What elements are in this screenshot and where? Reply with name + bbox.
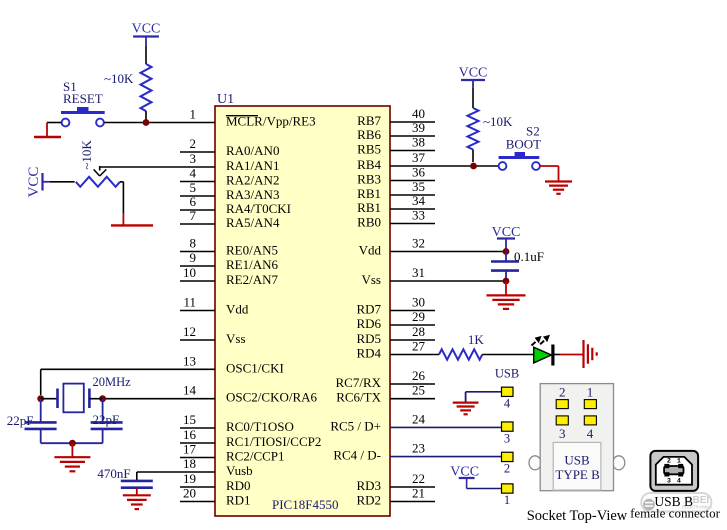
svg-text:25: 25 (412, 383, 425, 398)
resistor R1 ~10K (104, 46, 152, 123)
svg-text:3: 3 (504, 431, 510, 445)
svg-text:RA0/AN0: RA0/AN0 (226, 143, 279, 158)
pin 36 RB3 wire (357, 165, 435, 187)
junction node crystal ground (69, 440, 76, 447)
socket USB TYPE B inner outline (553, 442, 601, 490)
pushbutton S1 RESET (61, 79, 105, 126)
wire pad4 to ground (466, 391, 502, 393)
svg-text:22: 22 (412, 471, 425, 486)
svg-text:RA5/AN4: RA5/AN4 (226, 215, 280, 230)
svg-text:12: 12 (183, 324, 196, 339)
svg-text:1: 1 (504, 493, 510, 507)
svg-text:33: 33 (412, 208, 425, 223)
caption female connector (630, 506, 721, 521)
pin 23 RC4 / D- wire (333, 441, 501, 463)
pin 12 Vss wire (180, 324, 246, 346)
svg-text:8: 8 (190, 236, 197, 251)
svg-text:32: 32 (412, 236, 425, 251)
svg-text:~10K: ~10K (483, 114, 513, 129)
svg-text:RD4: RD4 (356, 346, 381, 361)
pin 7 RA5/AN4 wire (180, 208, 280, 230)
resistor R2 ~10K (468, 88, 514, 162)
svg-text:VCC: VCC (459, 66, 488, 81)
svg-text:BOOT: BOOT (506, 137, 541, 152)
svg-text:10: 10 (183, 265, 196, 280)
svg-text:18: 18 (183, 456, 196, 471)
svg-text:22pF: 22pF (93, 412, 120, 427)
pin 28 RD5 wire (356, 324, 435, 346)
pin 34 RB1 wire (357, 193, 435, 215)
power VCC (pad 1) (450, 465, 501, 489)
pin 29 RD6 wire (356, 309, 435, 331)
pin 21 RD2 wire (356, 486, 435, 508)
svg-text:RA4/T0CKI: RA4/T0CKI (226, 201, 291, 216)
pin 30 RD7 wire (356, 295, 435, 317)
wire R3 to LED (482, 354, 533, 356)
pin 5 RA3/AN3 wire (180, 180, 279, 202)
svg-text:RE0/AN5: RE0/AN5 (226, 243, 278, 258)
svg-text:VCC: VCC (26, 167, 42, 198)
svg-text:2: 2 (190, 136, 197, 151)
ground (potentiometer, simple bar) (111, 214, 153, 226)
capacitor C4 0.1uF (491, 249, 544, 281)
svg-text:RB3: RB3 (357, 172, 381, 187)
svg-text:RA2/AN2: RA2/AN2 (226, 173, 279, 188)
svg-text:3: 3 (190, 151, 197, 166)
svg-text:Vdd: Vdd (359, 243, 382, 258)
pin 4 RA2/AN2 wire (180, 166, 279, 188)
socket pin 4 pad (584, 416, 596, 441)
wire pin13 down to crystal (40, 369, 42, 395)
svg-text:RC1/TIOSI/CCP2: RC1/TIOSI/CCP2 (226, 434, 321, 449)
svg-text:39: 39 (412, 120, 425, 135)
svg-text:RB4: RB4 (357, 157, 381, 172)
pin 18 Vusb wire (137, 456, 253, 478)
pin 24 RC5 / D+ wire (330, 411, 501, 433)
LED D1 (532, 335, 553, 366)
pin 3 RA1/AN1 wire (100, 151, 279, 173)
svg-text:USB: USB (495, 367, 519, 381)
USB pad 3 (502, 422, 514, 445)
svg-text:OSC1/CKI: OSC1/CKI (226, 360, 284, 375)
svg-text:Socket Top-View: Socket Top-View (527, 508, 628, 524)
power VCC (potentiometer, rotated) (26, 167, 50, 198)
power VCC (reset pull-up) (132, 22, 161, 47)
pin 39 RB6 wire (357, 120, 435, 142)
svg-text:Vss: Vss (361, 272, 381, 287)
svg-text:17: 17 (183, 442, 197, 457)
svg-text:30: 30 (412, 295, 425, 310)
svg-text:VCC: VCC (132, 22, 161, 37)
USB pad 4 (502, 387, 514, 410)
svg-text:RD7: RD7 (356, 302, 381, 317)
svg-text:29: 29 (412, 309, 425, 324)
pin 17 RC2/CCP1 wire (180, 442, 285, 464)
pin 6 RA4/T0CKI wire (180, 194, 291, 216)
svg-text:31: 31 (412, 265, 425, 280)
junction node Vss (503, 278, 510, 285)
svg-text:RB1: RB1 (357, 186, 381, 201)
svg-text:6: 6 (190, 194, 197, 209)
ground (C4) (487, 281, 526, 309)
pin 38 RB5 wire (357, 135, 435, 157)
svg-text:3: 3 (559, 426, 566, 441)
svg-text:1: 1 (190, 107, 197, 122)
pin 2 RA0/AN0 wire (180, 136, 279, 158)
svg-text:19: 19 (183, 471, 196, 486)
USB B connector pins (664, 458, 683, 486)
pin 31 Vss wire (361, 265, 506, 287)
svg-text:RB1: RB1 (357, 200, 381, 215)
wire S1 left terminal (47, 122, 61, 124)
pin 40 RB7 wire (357, 106, 435, 128)
svg-text:0.1uF: 0.1uF (514, 249, 544, 264)
svg-text:U1: U1 (217, 92, 234, 107)
svg-text:34: 34 (412, 193, 426, 208)
pin 37 RB4 wire (357, 150, 498, 172)
pin 27 RD4 wire (356, 339, 439, 361)
caption Socket Top-View (527, 508, 628, 524)
wire capacitors common (41, 442, 103, 444)
pin 16 RC1/TIOSI/CCP2 wire (180, 427, 321, 449)
svg-text:~10K: ~10K (79, 140, 94, 170)
svg-text:RC0/T1OSO: RC0/T1OSO (226, 419, 294, 434)
svg-text:470nF: 470nF (97, 466, 130, 481)
svg-text:RC2/CCP1: RC2/CCP1 (226, 449, 285, 464)
potentiometer wiper arrow to pin 3 (94, 166, 107, 176)
socket pin 3 pad (556, 416, 568, 441)
junction node OSC2 (99, 395, 106, 402)
svg-text:7: 7 (190, 208, 197, 223)
svg-text:11: 11 (183, 295, 196, 310)
pin 13 OSC1/CKI wire (41, 353, 284, 375)
svg-text:RE1/AN6: RE1/AN6 (226, 257, 279, 272)
svg-text:21: 21 (412, 486, 425, 501)
caption USB B (654, 494, 693, 509)
svg-text:13: 13 (183, 353, 196, 368)
pin 22 RD3 wire (356, 471, 435, 493)
ground (C3) (123, 488, 151, 509)
pin 8 RE0/AN5 wire (180, 236, 278, 258)
resistor R3 1K (439, 332, 484, 360)
pin 19 RD0 wire (180, 471, 251, 493)
junction node OSC1 (37, 395, 44, 402)
svg-text:4: 4 (677, 477, 681, 485)
svg-text:OSC2/CKO/RA6: OSC2/CKO/RA6 (226, 390, 318, 405)
ground (crystal) (54, 443, 90, 471)
pin 15 RC0/T1OSO wire (180, 412, 294, 434)
net label USB (495, 367, 519, 381)
svg-text:RA3/AN3: RA3/AN3 (226, 187, 279, 202)
pin 25 RC6/TX wire (336, 383, 435, 405)
socket pin 1 pad (584, 385, 596, 409)
power VCC (decoupling) (492, 225, 521, 252)
svg-text:1K: 1K (468, 332, 485, 347)
svg-text:15: 15 (183, 412, 196, 427)
pin 26 RC7/RX wire (335, 368, 435, 390)
svg-text:RE2/AN7: RE2/AN7 (226, 272, 279, 287)
wire potentiometer right lead (120, 182, 123, 214)
pin 11 Vdd wire (180, 295, 249, 317)
svg-text:4: 4 (587, 426, 594, 441)
pin 33 RB0 wire (357, 208, 435, 230)
svg-text:RB0: RB0 (357, 215, 381, 230)
watermark badge (641, 493, 712, 512)
socket mounting ears (529, 456, 625, 470)
svg-text:PIC18F4550: PIC18F4550 (272, 497, 338, 512)
svg-text:9: 9 (190, 250, 197, 265)
svg-text:RB5: RB5 (357, 142, 381, 157)
pin 35 RB1 wire (357, 179, 435, 201)
svg-text:40: 40 (412, 106, 425, 121)
svg-text:2: 2 (504, 462, 510, 476)
capacitor C1 22pF (7, 399, 57, 444)
pin 10 RE2/AN7 wire (180, 265, 279, 287)
svg-text:5: 5 (190, 180, 197, 195)
svg-text:female connector: female connector (630, 506, 721, 521)
pin 20 RD1 wire (180, 486, 251, 508)
capacitor C3 470nF (97, 466, 152, 488)
junction node Vdd (503, 248, 510, 255)
svg-text:16: 16 (183, 427, 197, 442)
wire S2 right terminal (540, 165, 559, 167)
socket pin 2 pad (556, 385, 568, 409)
svg-text:35: 35 (412, 179, 425, 194)
svg-text:24: 24 (412, 411, 426, 426)
svg-text:Vdd: Vdd (226, 302, 249, 317)
pushbutton S2 BOOT (499, 124, 542, 170)
svg-text:RC7/RX: RC7/RX (335, 375, 381, 390)
svg-text:RD2: RD2 (356, 493, 381, 508)
svg-text:20MHz: 20MHz (93, 375, 132, 389)
svg-text:RD3: RD3 (356, 478, 381, 493)
svg-text:28: 28 (412, 324, 425, 339)
svg-text:4: 4 (504, 397, 511, 411)
ground (S1, simple bar) (34, 123, 61, 138)
svg-text:38: 38 (412, 135, 425, 150)
socket top-view body (540, 384, 613, 491)
USB B female connector icon (650, 451, 698, 491)
svg-text:RD6: RD6 (356, 316, 381, 331)
svg-text:RC4 / D-: RC4 / D- (333, 448, 381, 463)
capacitor C2 22pF (91, 399, 123, 444)
USB pad 2 (502, 452, 514, 475)
svg-text:USB: USB (564, 452, 590, 467)
pin 14 OSC2/CKO/RA6 wire (103, 383, 318, 405)
svg-text:~10K: ~10K (104, 71, 134, 86)
ground (pad 4) (453, 392, 479, 415)
svg-text:1: 1 (587, 385, 594, 400)
potentiometer RV1 ~10K (50, 140, 120, 187)
svg-text:Vusb: Vusb (226, 463, 253, 478)
svg-text:26: 26 (412, 368, 426, 383)
svg-text:RC6/TX: RC6/TX (336, 390, 381, 405)
svg-text:RB6: RB6 (357, 127, 381, 142)
crystal X1 20MHz (41, 375, 131, 412)
svg-text:RESET: RESET (63, 91, 103, 106)
svg-text:RD1: RD1 (226, 493, 251, 508)
svg-text:22pF: 22pF (7, 413, 34, 428)
wire LED cathode (554, 354, 583, 356)
USB pad 1 (502, 484, 514, 507)
svg-text:27: 27 (412, 339, 426, 354)
svg-text:RA1/AN1: RA1/AN1 (226, 158, 279, 173)
chip U1 PIC18F4550 body (215, 92, 390, 516)
svg-text:RD5: RD5 (356, 331, 381, 346)
svg-text:23: 23 (412, 441, 425, 456)
svg-text:RB7: RB7 (357, 113, 381, 128)
power VCC (boot pull-up) (459, 66, 488, 89)
pin 1 MCLR/Vpp/RE3 wire (146, 107, 316, 129)
ground (S2) (545, 166, 572, 194)
svg-text:3: 3 (667, 477, 671, 485)
wire S1 right terminal to node MCLR (104, 122, 146, 124)
svg-text:4: 4 (190, 166, 197, 181)
svg-text:37: 37 (412, 150, 426, 165)
svg-text:RD0: RD0 (226, 478, 251, 493)
svg-text:Vss: Vss (226, 331, 246, 346)
junction node RB4 (470, 163, 477, 170)
svg-text:2: 2 (559, 385, 566, 400)
pin 32 Vdd wire (359, 236, 506, 258)
ground (LED, rotated) (584, 340, 597, 368)
pin 9 RE1/AN6 wire (180, 250, 279, 272)
svg-text:14: 14 (183, 383, 197, 398)
svg-text:RC5 / D+: RC5 / D+ (330, 418, 381, 433)
svg-text:20: 20 (183, 486, 196, 501)
junction node MCLR (143, 119, 150, 126)
svg-text:TYPE B: TYPE B (555, 467, 600, 482)
svg-text:36: 36 (412, 165, 426, 180)
